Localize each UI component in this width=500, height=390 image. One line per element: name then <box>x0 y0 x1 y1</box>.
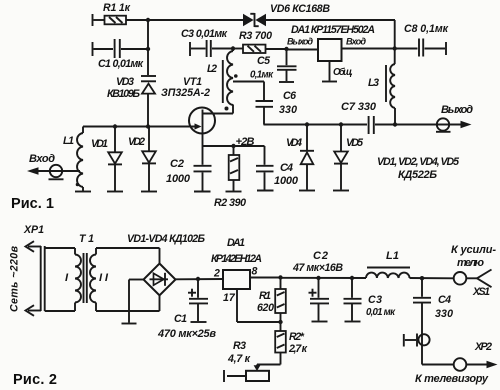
node R1/R2 junction <box>278 320 282 324</box>
svg-text:VD6 КС168В: VD6 КС168В <box>270 3 330 15</box>
node top-rail junction <box>146 18 150 22</box>
node VD4 junction <box>305 122 309 126</box>
svg-text:К усили-: К усили- <box>451 244 496 256</box>
wire secondary bottom <box>96 310 160 312</box>
inductor L1 <box>63 127 83 192</box>
svg-text:R1: R1 <box>259 290 271 302</box>
wire output rail right <box>375 124 462 126</box>
wire secondary top <box>96 247 160 249</box>
svg-text:330: 330 <box>279 104 297 116</box>
svg-text:620: 620 <box>257 302 274 314</box>
node L3 bottom junction <box>393 122 397 126</box>
wire source to +2V node <box>203 145 234 147</box>
diode VD2 <box>128 127 156 192</box>
svg-text:телю: телю <box>457 257 484 269</box>
capacitor C3 <box>344 278 397 321</box>
transistor VT1 <box>161 76 233 146</box>
svg-text:Рис. 2: Рис. 2 <box>13 372 57 388</box>
svg-text:470 мк×25в: 470 мк×25в <box>157 328 216 340</box>
svg-text:С2: С2 <box>313 250 328 262</box>
svg-text:С1 0,01мк: С1 0,01мк <box>98 58 144 70</box>
note diode types <box>377 156 460 181</box>
varicap VD3 <box>107 76 156 127</box>
svg-text:47 мк×16В: 47 мк×16В <box>292 262 343 274</box>
svg-text:XS1: XS1 <box>472 286 490 298</box>
svg-text:L3: L3 <box>368 77 379 89</box>
svg-text:С6: С6 <box>283 90 296 102</box>
node +2V <box>231 136 254 148</box>
wire gate rail <box>83 126 195 128</box>
ground C4 <box>257 190 274 192</box>
wire R1 junction down to VD3 <box>147 20 149 75</box>
svg-text:КР142ЕН12А: КР142ЕН12А <box>211 253 262 265</box>
svg-text:С4: С4 <box>438 294 451 306</box>
svg-text:С5: С5 <box>257 55 271 67</box>
svg-text:1000: 1000 <box>166 173 191 185</box>
svg-text:17: 17 <box>223 292 236 304</box>
capacitor C6 <box>256 82 298 125</box>
svg-text:VD3: VD3 <box>116 76 134 88</box>
resistor R1 <box>93 2 149 26</box>
svg-text:R2 390: R2 390 <box>214 197 246 209</box>
ground VD4 <box>299 190 315 192</box>
node VD1 junction <box>113 124 117 128</box>
svg-text:Вход: Вход <box>29 153 55 165</box>
svg-text:VD4: VD4 <box>286 137 302 149</box>
wire top rail left <box>148 19 243 21</box>
svg-text:С8 0,1мк: С8 0,1мк <box>404 23 449 35</box>
connector input Вход <box>27 153 80 179</box>
ground L1 <box>75 191 91 193</box>
ground VD5 <box>333 190 349 192</box>
svg-text:Вход: Вход <box>346 37 366 47</box>
ground R2 <box>226 191 242 193</box>
svg-text:С3: С3 <box>368 294 382 306</box>
capacitor C1 <box>93 39 149 70</box>
connector XS1 to amplifier <box>451 244 496 298</box>
svg-text:С2: С2 <box>170 158 184 170</box>
ground C1 <box>191 321 207 323</box>
wire top rail right <box>266 20 395 49</box>
svg-text:ХР2: ХР2 <box>474 341 492 353</box>
svg-text:С3 0,01мк: С3 0,01мк <box>181 28 228 40</box>
svg-text:R2*: R2* <box>289 331 305 343</box>
svg-text:КВ109Б: КВ109Б <box>107 88 140 100</box>
svg-text:С7 330: С7 330 <box>341 101 377 113</box>
op-amp U2 regulator DA1 <box>211 237 281 322</box>
svg-text:VD1, VD2, VD4, VD5: VD1, VD2, VD4, VD5 <box>377 156 460 168</box>
svg-text:Рис. 1: Рис. 1 <box>11 196 54 212</box>
svg-text:К телевизору: К телевизору <box>415 373 489 385</box>
svg-text:ХР1: ХР1 <box>23 224 44 236</box>
svg-text:0,01 мк: 0,01 мк <box>366 307 396 318</box>
svg-text:Выход: Выход <box>441 104 473 116</box>
inductor L1 <box>366 250 410 278</box>
svg-text:КД522Б: КД522Б <box>398 169 437 181</box>
connector pair on C4 branch <box>404 334 430 347</box>
node C5 junction <box>284 47 288 51</box>
svg-text:2: 2 <box>213 268 220 280</box>
svg-text:0,1мк: 0,1мк <box>250 70 274 81</box>
svg-text:VD5: VD5 <box>346 137 364 149</box>
capacitor C5 <box>250 49 297 82</box>
node C2 junction <box>316 276 320 280</box>
op-amp U1 regulator DA1 <box>287 24 395 82</box>
rectifier bridge VD1-VD4 <box>127 233 205 323</box>
svg-text:R3 700: R3 700 <box>239 30 272 42</box>
svg-text:R3: R3 <box>233 340 246 352</box>
diode VD5 <box>334 125 364 190</box>
capacitor C2 <box>166 146 212 191</box>
wire plug boundary bars <box>41 246 45 311</box>
svg-text:С4: С4 <box>280 162 293 174</box>
svg-text:4,7 к: 4,7 к <box>227 353 251 365</box>
ground C2 <box>194 191 211 193</box>
svg-text:DA1: DA1 <box>227 237 245 249</box>
wire bridge output to DA1 <box>176 278 224 280</box>
svg-text:VD1-VD4 КД102Б: VD1-VD4 КД102Б <box>127 233 205 245</box>
svg-text:330: 330 <box>435 308 453 320</box>
wire rail to XS1 <box>410 277 454 279</box>
resistor R2 <box>275 322 307 365</box>
svg-text:R1 1к: R1 1к <box>103 2 131 14</box>
zener VD6 <box>243 3 330 27</box>
capacitor C2 electrolytic <box>292 250 343 321</box>
svg-text:1000: 1000 <box>274 175 299 187</box>
svg-text:II: II <box>99 272 109 284</box>
capacitor C4 <box>413 278 453 364</box>
resistor R3 <box>233 30 287 53</box>
ground VD1 <box>107 191 123 193</box>
inductor L2 <box>207 49 264 111</box>
node C4 junction <box>420 276 424 280</box>
node VD3 junction <box>146 124 150 128</box>
node C1/VD3 junction <box>146 47 150 51</box>
ground bridge minus <box>122 323 137 325</box>
svg-text:Общ.: Общ. <box>333 67 353 78</box>
resistor R2 <box>214 146 246 209</box>
svg-text:DA1 КР1157ЕН502А: DA1 КР1157ЕН502А <box>291 24 375 36</box>
node VD5 junction <box>339 122 343 126</box>
node L2 top junction <box>231 46 235 50</box>
svg-text:VD2: VD2 <box>128 136 145 148</box>
svg-text:L1: L1 <box>63 135 74 147</box>
node C1 junction <box>196 277 200 281</box>
svg-text:С1: С1 <box>174 313 187 325</box>
node C3 junction <box>350 276 354 280</box>
node DA1 input junction <box>393 46 397 50</box>
node R1 top junction <box>278 275 282 279</box>
ground C2 <box>312 321 328 323</box>
svg-text:L2: L2 <box>207 63 217 75</box>
capacitor C1 electrolytic <box>157 279 216 340</box>
wire main rail fig2 <box>281 277 367 279</box>
svg-text:ЗП325А-2: ЗП325А-2 <box>161 87 210 99</box>
connector output Выход <box>436 104 473 132</box>
transformer T1 <box>45 233 109 311</box>
inductor L3 <box>368 49 395 125</box>
capacitor C7 <box>341 101 377 134</box>
capacitor C4 <box>234 146 299 190</box>
resistor R1 <box>257 278 286 323</box>
svg-text:8: 8 <box>252 266 258 278</box>
diode VD1 <box>91 127 122 192</box>
wire to XP2 <box>422 364 454 366</box>
svg-text:Выход: Выход <box>287 37 313 47</box>
potentiometer R3 <box>224 340 281 382</box>
svg-text:2,7 к: 2,7 к <box>288 343 308 355</box>
ground C3 <box>345 321 361 323</box>
wire output rail <box>264 124 368 126</box>
connector XP2 to television <box>415 341 498 385</box>
capacitor C8 <box>395 23 449 57</box>
svg-text:L1: L1 <box>386 250 399 262</box>
svg-text:Сеть ~220в: Сеть ~220в <box>9 245 21 312</box>
capacitor C3 <box>181 28 233 57</box>
connector XP1 mains plug <box>9 224 45 316</box>
svg-text:VD1: VD1 <box>91 138 108 150</box>
ground VD2 <box>141 191 157 193</box>
diode VD4 <box>286 125 314 190</box>
